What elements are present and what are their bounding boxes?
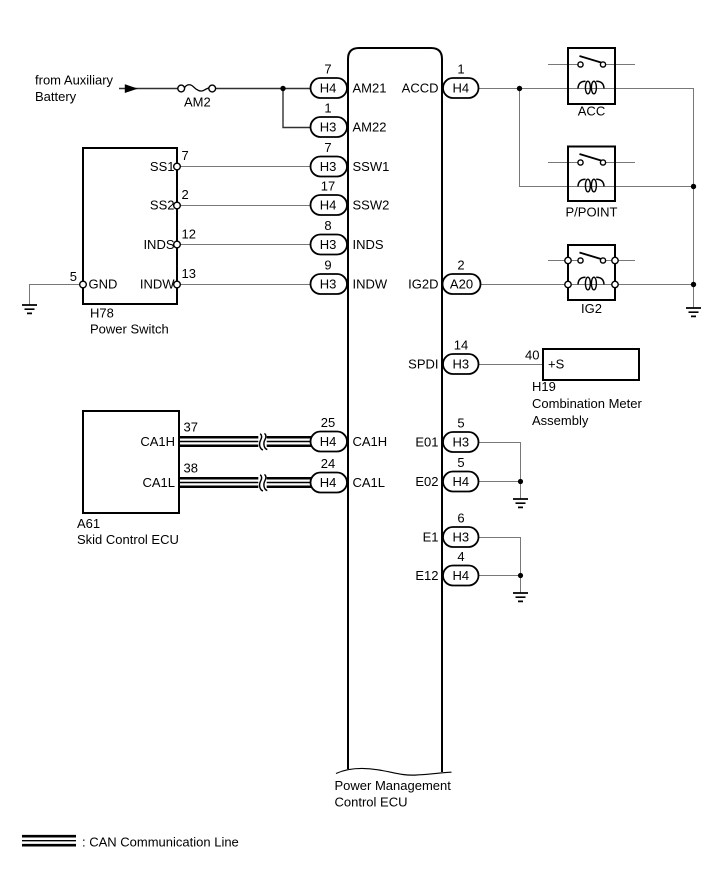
svg-text:H4: H4	[320, 475, 337, 490]
svg-text:H3: H3	[320, 159, 337, 174]
svg-text:9: 9	[324, 258, 331, 273]
svg-text:E12: E12	[415, 568, 438, 583]
svg-text:from Auxiliary: from Auxiliary	[35, 73, 114, 88]
svg-text:AM2: AM2	[184, 94, 211, 109]
svg-text:CA1L: CA1L	[142, 475, 175, 490]
svg-text:INDS: INDS	[143, 237, 174, 252]
svg-text:Skid Control ECU: Skid Control ECU	[77, 532, 179, 547]
svg-text:E1: E1	[423, 530, 439, 545]
svg-text:A61: A61	[77, 516, 100, 531]
svg-text:7: 7	[324, 140, 331, 155]
svg-text:GND: GND	[89, 277, 118, 292]
svg-text:E01: E01	[415, 435, 438, 450]
svg-text:Assembly: Assembly	[532, 413, 589, 428]
svg-text:A20: A20	[450, 277, 473, 292]
svg-text:H4: H4	[452, 81, 469, 96]
svg-text:SSW1: SSW1	[353, 159, 390, 174]
svg-text:6: 6	[457, 511, 464, 526]
svg-text:H3: H3	[452, 435, 469, 450]
svg-text:2: 2	[457, 258, 464, 273]
svg-text:14: 14	[454, 338, 468, 353]
svg-text:IG2: IG2	[581, 301, 602, 316]
svg-text:INDW: INDW	[353, 277, 388, 292]
svg-text:5: 5	[457, 416, 464, 431]
svg-text:IG2D: IG2D	[408, 277, 438, 292]
svg-text:H19: H19	[532, 379, 556, 394]
svg-text:INDS: INDS	[353, 237, 384, 252]
svg-text:ACC: ACC	[578, 104, 605, 119]
svg-text:12: 12	[182, 227, 196, 242]
svg-text:1: 1	[324, 101, 331, 116]
svg-text:H3: H3	[452, 530, 469, 545]
svg-text:1: 1	[457, 62, 464, 77]
svg-text:8: 8	[324, 218, 331, 233]
svg-text:Battery: Battery	[35, 89, 77, 104]
svg-text:AM21: AM21	[353, 81, 387, 96]
svg-text:H3: H3	[452, 357, 469, 372]
svg-text:SSW2: SSW2	[353, 198, 390, 213]
svg-text:Power Switch: Power Switch	[90, 322, 169, 337]
svg-text:CA1H: CA1H	[140, 434, 175, 449]
svg-text:Control ECU: Control ECU	[335, 795, 408, 810]
svg-text:7: 7	[324, 62, 331, 77]
svg-text:H78: H78	[90, 306, 114, 321]
svg-text:25: 25	[321, 415, 335, 430]
svg-text:17: 17	[321, 179, 335, 194]
svg-text:SS1: SS1	[150, 159, 175, 174]
svg-text:7: 7	[182, 148, 189, 163]
svg-text:H4: H4	[320, 198, 337, 213]
svg-text:H4: H4	[452, 568, 469, 583]
svg-text:+S: +S	[548, 357, 565, 372]
svg-text:Combination Meter: Combination Meter	[532, 396, 642, 411]
svg-text:24: 24	[321, 456, 335, 471]
svg-text:H4: H4	[452, 474, 469, 489]
svg-text:5: 5	[457, 455, 464, 470]
svg-text:AM22: AM22	[353, 120, 387, 135]
svg-text:2: 2	[182, 187, 189, 202]
svg-text:E02: E02	[415, 474, 438, 489]
svg-text:INDW: INDW	[140, 277, 175, 292]
svg-text:38: 38	[184, 461, 198, 476]
svg-text:SS2: SS2	[150, 198, 175, 213]
svg-text:ACCD: ACCD	[402, 81, 439, 96]
svg-text:SPDI: SPDI	[408, 357, 438, 372]
svg-text:4: 4	[457, 549, 464, 564]
svg-text:CA1H: CA1H	[353, 434, 388, 449]
svg-text:H4: H4	[320, 81, 337, 96]
svg-text:H3: H3	[320, 120, 337, 135]
svg-text:H3: H3	[320, 277, 337, 292]
svg-text:Power Management: Power Management	[335, 778, 452, 793]
svg-text:40: 40	[525, 348, 539, 363]
svg-text:H3: H3	[320, 237, 337, 252]
svg-text:5: 5	[70, 269, 77, 284]
svg-text:: CAN Communication Line: : CAN Communication Line	[82, 835, 239, 850]
svg-text:H4: H4	[320, 434, 337, 449]
svg-text:P/POINT: P/POINT	[565, 205, 617, 220]
svg-text:37: 37	[184, 420, 198, 435]
svg-text:13: 13	[182, 266, 196, 281]
svg-text:CA1L: CA1L	[353, 475, 386, 490]
